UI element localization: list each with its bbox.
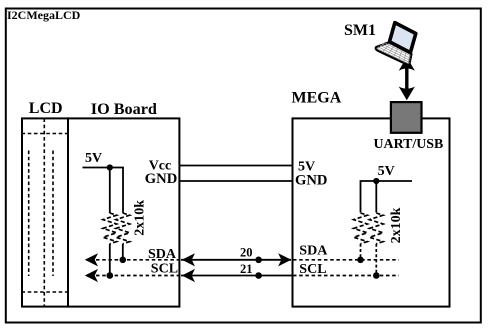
wire SCL dashed (IO Board internal) xyxy=(96,275,179,277)
svg-text:20: 20 xyxy=(240,246,253,260)
wire R4 bottom lead to SCL (dashed) xyxy=(375,244,377,276)
wire SDA dashed (IO Board internal) xyxy=(96,259,179,261)
svg-text:SDA: SDA xyxy=(299,244,328,259)
svg-text:GND: GND xyxy=(145,171,177,187)
LCD right dashed column xyxy=(52,151,54,277)
junction R1/SCL xyxy=(107,272,114,279)
laptop keyboard base xyxy=(375,38,414,66)
wire SDA (IO Board to MEGA) xyxy=(181,259,291,261)
svg-text:5V: 5V xyxy=(378,164,395,179)
LCD bottom dashed divider xyxy=(22,291,69,293)
junction on IO 5V rail xyxy=(107,164,113,170)
laptop SM1 xyxy=(375,20,423,66)
junction on MEGA 5V rail xyxy=(373,178,379,184)
LCD top dashed divider xyxy=(22,133,69,135)
MEGA block xyxy=(293,118,450,306)
arrowhead SDA to LCD xyxy=(85,253,98,266)
wire 5V rail (IO Board) xyxy=(83,168,124,214)
resistor R3 2x10k (MEGA left pull-up) xyxy=(354,213,368,244)
LCD block xyxy=(22,118,68,306)
arrowhead SDA at IO Board side xyxy=(182,253,195,266)
arrowhead SCL to LCD xyxy=(85,269,98,282)
junction on SCL interconnect xyxy=(255,272,262,279)
wire R2 bottom lead to SDA xyxy=(122,244,124,260)
UART/USB module U1 xyxy=(391,102,422,133)
svg-text:UART/USB: UART/USB xyxy=(374,137,444,152)
laptop screen xyxy=(386,23,419,53)
LCD left dashed column xyxy=(28,151,30,277)
arrowhead SDA at MEGA side xyxy=(278,253,291,266)
svg-text:5V: 5V xyxy=(85,151,102,166)
svg-text:IO Board: IO Board xyxy=(91,100,157,118)
svg-text:LCD: LCD xyxy=(29,100,63,117)
resistor R2 2x10k (IO Board right pull-up) xyxy=(116,213,130,244)
svg-text:SCL: SCL xyxy=(151,262,178,277)
junction R3/SDA xyxy=(357,257,364,264)
junction R4/SCL xyxy=(373,272,380,279)
wire GND (IO Board to MEGA) xyxy=(180,180,292,182)
svg-text:GND: GND xyxy=(295,173,327,189)
junction R2/SDA xyxy=(120,257,127,264)
wire SDA dashed (MEGA internal) xyxy=(293,259,399,261)
wire R3 bottom lead to SDA (dashed) xyxy=(360,244,362,260)
svg-text:2x10k: 2x10k xyxy=(133,200,148,236)
wire SCL dashed (MEGA internal) xyxy=(293,275,399,277)
resistor R4 2x10k (MEGA right pull-up) xyxy=(370,213,384,244)
svg-text:SM1: SM1 xyxy=(344,22,376,39)
svg-text:2x10k: 2x10k xyxy=(389,207,404,243)
wire Vcc (IO Board to MEGA) xyxy=(180,165,292,167)
IO Board block xyxy=(68,118,179,306)
arrowhead SCL at IO Board side xyxy=(182,269,195,282)
junction on SDA interconnect xyxy=(255,257,262,264)
svg-text:MEGA: MEGA xyxy=(292,90,342,107)
wire 5V rail (MEGA) xyxy=(361,181,413,213)
svg-text:I2CMegaLCD: I2CMegaLCD xyxy=(7,8,81,22)
resistor R1 2x10k (IO Board left pull-up) xyxy=(103,213,117,244)
wire R1 bottom lead to SCL xyxy=(109,244,111,276)
wire UART link double arrow xyxy=(399,57,415,100)
wire SCL (IO Board to MEGA) xyxy=(181,275,292,277)
svg-text:21: 21 xyxy=(240,262,253,276)
LCD glass centerline (dashed vertical) xyxy=(43,118,45,306)
